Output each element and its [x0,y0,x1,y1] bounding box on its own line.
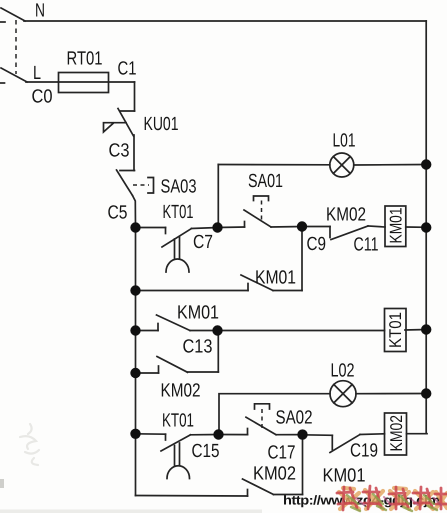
svg-text:SA02: SA02 [276,408,313,429]
wire SA02 to C17 node [276,434,303,436]
svg-text:KM01: KM01 [323,466,366,487]
svg-text:RT01: RT01 [67,49,103,70]
wire riser C17 node to bottom bus [302,435,304,495]
svg-text:C7: C7 [193,232,213,253]
svg-text:C1: C1 [118,59,137,80]
knife switch QS pole 2 (L) blade [0,68,27,83]
contact KM02 (C9-C11) [302,226,385,240]
coil KM02 [385,413,407,455]
node dot right rail L01 [421,159,431,169]
node dot rail row4 [130,368,140,378]
wire L02 branch [219,394,330,435]
coil KM01 [385,206,406,247]
relay contact KU01 [104,109,135,137]
svg-text:C13: C13 [183,337,213,358]
svg-text:KU01: KU01 [144,114,179,135]
node dot C17 junction [297,429,307,439]
wire left rail [135,228,137,496]
pushbutton SA02 [219,404,277,435]
wire SA03 to C5 [133,196,136,228]
node dot right rail L02 [421,388,431,398]
svg-text:C9: C9 [307,234,327,255]
svg-text:KM02: KM02 [387,415,406,452]
node dot C13 junction [212,325,222,335]
svg-text:KM01: KM01 [386,208,405,244]
wire riser C13 node to KM02 contact [217,331,219,373]
wire C1 drop [134,82,136,111]
svg-text:N: N [35,1,45,22]
svg-text:C17: C17 [268,443,296,464]
contact KM01 (C17-C19) [303,434,385,453]
node dot right rail KT01 [421,324,431,334]
coil KT01 [385,309,407,352]
wire right rail [425,21,427,434]
svg-text:KM02: KM02 [326,205,366,226]
smudge left [20,424,39,465]
wire N bus top [24,20,426,22]
knife switch QS pole 1 (N) blade [0,8,25,22]
watermark color stamp [337,486,447,511]
wire lamp L02 to right rail [356,393,426,395]
node dot rail row3 [130,325,140,335]
wire coil KM02 to right rail [407,433,428,435]
svg-text:L: L [33,63,41,84]
contact KM02 (C13 lower row) [136,357,219,374]
svg-text:KM02: KM02 [161,381,201,402]
contact KM02 (bottom, C17 branch) [243,479,303,496]
time contact KT01 (upper) [136,228,218,273]
wire C3 segment [133,135,135,171]
node dot rail row2 [130,285,140,295]
contact KM01 (seal-in under SA01) [136,275,303,291]
svg-text:L02: L02 [331,361,355,382]
time contact KT01 (lower) [136,434,219,479]
pushbutton SA01 [218,196,272,228]
svg-text:KM01: KM01 [255,268,296,289]
svg-text:KM02: KM02 [253,464,296,485]
wire coil KT01 to right rail [405,329,426,332]
svg-text:KM01: KM01 [177,303,219,324]
wire riser C9 node to KM01 contact [301,227,303,291]
node dot C5 rail [130,222,140,232]
node dot rail row6 [130,429,140,439]
lamp L01 [330,153,354,177]
svg-text:KT01: KT01 [386,312,405,348]
svg-text:C19: C19 [350,441,378,462]
fuse RT01 [59,73,135,93]
knife switch gang dashed link [15,20,17,74]
wire L to fuse [26,81,59,83]
node dot right rail KM01 [421,222,431,232]
svg-text:SA01: SA01 [248,171,283,192]
svg-text:SA03: SA03 [161,177,197,198]
svg-text:L01: L01 [333,131,356,152]
wire coil KM01 to right rail [406,226,426,228]
node dot C9 junction [297,221,307,231]
svg-text:KT01: KT01 [162,411,194,432]
svg-text:C11: C11 [354,235,379,256]
selector switch SA03 [117,170,154,196]
node dot C15 junction [213,429,223,439]
contact KM01 (C13 row) [136,315,385,331]
wire L01 branch riser [217,165,219,228]
wire lamp L01 to right rail [354,164,426,167]
svg-text:KT01: KT01 [163,202,194,223]
wire SA01 to C9 node [271,226,302,229]
wire bottom bus [136,495,248,498]
node dot C7 junction [212,222,222,232]
svg-text:C0: C0 [32,87,53,108]
smudge bottom edge [0,510,262,513]
svg-text:C3: C3 [109,141,130,162]
wire to lamp L01 [218,164,329,166]
lamp L02 [330,381,356,407]
svg-text:C15: C15 [192,441,220,462]
svg-text:C5: C5 [108,203,128,224]
